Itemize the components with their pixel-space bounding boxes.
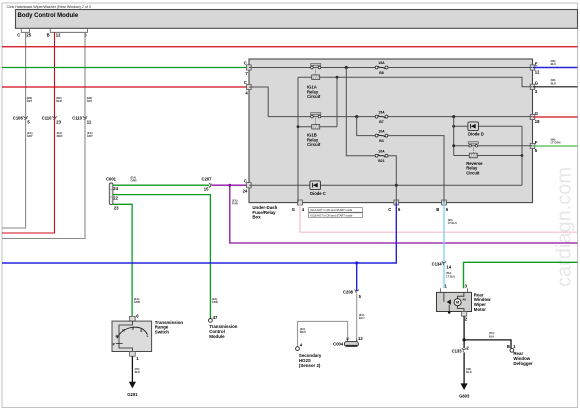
label Rear Window Wiper Motor (474, 292, 491, 311)
relay coil IG1B row (298, 118, 337, 129)
wire purple down and right to border (230, 185, 578, 243)
svg-text:Defogger: Defogger (513, 361, 533, 366)
pin G18 right tab (530, 111, 540, 124)
wire blue drop to C208 (356, 263, 358, 291)
connector C110 pin 23 (42, 116, 62, 125)
node purple junction (228, 184, 231, 187)
connector C208 pin 5 (343, 289, 362, 299)
svg-text:E: E (535, 61, 538, 66)
connector C001 body (106, 177, 117, 205)
svg-text:A6: A6 (462, 298, 466, 302)
node TCM pin 47 (209, 315, 219, 322)
svg-text:47: 47 (213, 315, 218, 320)
wire label (96) BLK (466, 367, 472, 374)
wire label (EA) GRN at TRS (134, 297, 140, 304)
bus red IG1 full width (2, 46, 578, 48)
rear window wiper motor body (437, 292, 472, 313)
relay coil IG1A (312, 69, 320, 79)
svg-text:BLK: BLK (489, 334, 495, 338)
pin C7 left tab (244, 61, 252, 76)
svg-text:WHT: WHT (300, 330, 306, 334)
wire lt-blue B6 down to C134 (443, 203, 445, 289)
wire label (EA) GRY (27, 131, 33, 138)
relay coil Reverse row (454, 148, 522, 158)
svg-text:C: C (388, 207, 391, 212)
svg-text:BLU: BLU (551, 62, 557, 66)
svg-text:Box: Box (252, 215, 261, 220)
wire bus2 to G18 (268, 116, 532, 118)
svg-text:18: 18 (535, 119, 540, 124)
svg-text:C: C (244, 178, 247, 183)
svg-text:B8: B8 (379, 71, 384, 75)
svg-text:Circuit: Circuit (307, 142, 321, 147)
transmission range switch body (112, 321, 152, 351)
pin E12 right tab (530, 61, 540, 74)
relay contact IG1B (311, 113, 321, 118)
bus green to fuse box pin C7 (2, 67, 249, 69)
wire IG1A loop right vertical (336, 77, 338, 127)
diode D (468, 122, 484, 136)
svg-text:M: M (456, 301, 459, 305)
wire label (96) BLU (551, 59, 557, 66)
wire B3 branch (357, 117, 444, 203)
ground G603 (459, 383, 470, 398)
wire black C133 to G603 (463, 352, 465, 383)
node contact row junction (452, 144, 455, 147)
wire G3 black to border (533, 86, 578, 88)
fuse B3 10A (375, 129, 388, 143)
svg-text:GRN: GRN (134, 300, 140, 304)
svg-text:LT BLU: LT BLU (446, 274, 455, 278)
node diode C row junction (395, 184, 398, 187)
wire label (EA) PUR (232, 198, 238, 205)
ground G201 (127, 382, 138, 397)
svg-text:B: B (507, 344, 510, 349)
svg-text:C207: C207 (202, 177, 213, 182)
connector C134 pin 14 (432, 261, 452, 269)
svg-text:G: G (292, 207, 295, 212)
svg-text:BLK: BLK (551, 81, 557, 85)
wire bus1 C7 to E12 (249, 67, 533, 69)
svg-text:B3: B3 (379, 139, 384, 143)
svg-text:GRY: GRY (27, 134, 33, 138)
pin F5 right tab (530, 140, 538, 153)
node blue junction (355, 261, 358, 264)
wire diode D row (454, 125, 522, 127)
node rung junction (336, 76, 339, 79)
pin G3 right tab (530, 81, 538, 94)
wire label (M2) GRY (27, 96, 33, 103)
wire gray C004 pin 8 to HO2S (298, 321, 348, 346)
svg-text:14: 14 (446, 265, 451, 270)
wire black motor pin 2 down (463, 316, 465, 348)
pin C24 left tab (243, 178, 252, 193)
svg-text:B21: B21 (378, 159, 384, 163)
wire BCM B12 red down-left to border (2, 32, 55, 233)
label IG1B Relay Circuit (307, 133, 321, 148)
wire label (96) LT GRN (551, 137, 561, 144)
label Secondary HO2S (Sensor 2) (299, 353, 322, 368)
svg-text:10A: 10A (378, 149, 385, 153)
Body Control Module box (16, 10, 578, 29)
svg-text:Body Control Module: Body Control Module (18, 13, 79, 19)
svg-text:C134: C134 (432, 262, 443, 267)
connector C004 body (333, 336, 363, 346)
node Rear Window Defogger pin B1 (507, 344, 516, 352)
connector C207 pin 15 (202, 177, 213, 192)
wire black TRS pin1 to G201 (131, 356, 133, 382)
wire gray C208 to C004 pin 12 (356, 294, 358, 342)
wire label (96) BLK (551, 78, 557, 85)
pin C6 bottom tab (388, 200, 401, 212)
wire label (M3) GRY (87, 96, 93, 103)
label Reverse Relay Circuit (466, 161, 483, 176)
wire BCM C25 gray down-left to border (2, 32, 26, 228)
wire BCM pin6 gray down-left to border (2, 32, 85, 238)
wire C001 pin 24 green to C207 (113, 185, 209, 191)
svg-text:(Sensor 2): (Sensor 2) (299, 363, 321, 368)
svg-text:GRY: GRY (27, 99, 33, 103)
svg-text:RED: RED (57, 134, 63, 138)
wire IG1A loop left vertical down to pin G4 (297, 77, 299, 202)
wire label (EA) GRY (87, 131, 93, 138)
fuse B21 10A (375, 149, 388, 163)
wire C4 entry to bus2 (249, 87, 268, 117)
wire label (EA) GRN at TCM (212, 297, 218, 304)
wire label (EA) GRN (131, 175, 137, 182)
label Transmission Control Module (209, 324, 238, 339)
svg-text:LT BLU: LT BLU (448, 221, 457, 225)
wire label (TH) LT BLU (446, 271, 455, 278)
svg-text:S: S (140, 329, 142, 333)
BCM pin B12 / pin 6 tab (47, 29, 88, 38)
fuse B8 15A (375, 61, 388, 75)
svg-text:RED: RED (56, 99, 62, 103)
svg-text:24: 24 (243, 189, 248, 194)
wire G18 red to border (533, 116, 578, 118)
svg-text:Module: Module (209, 334, 225, 339)
wire label (M2) RED (56, 96, 62, 103)
svg-text:C133: C133 (452, 349, 463, 354)
svg-text:G603: G603 (459, 393, 470, 398)
svg-text:25: 25 (26, 33, 31, 38)
svg-text:Circuit: Circuit (466, 170, 480, 175)
svg-text:GRY: GRY (87, 99, 93, 103)
wire reverse loop right vertical (521, 126, 523, 185)
node diode D left junction (452, 125, 455, 128)
wire B21 branch (346, 68, 396, 203)
svg-text:B7: B7 (379, 120, 384, 124)
rear wiper motor pin tab 1 and 3 (441, 284, 468, 293)
svg-text:C208: C208 (343, 290, 354, 295)
label Transmission Range Switch (155, 320, 184, 335)
svg-text:C110: C110 (72, 116, 82, 121)
connector C133 pin 2 (452, 345, 470, 353)
pin C4 left tab (244, 80, 252, 95)
Under-Dash Fuse/Relay Box body (249, 59, 533, 220)
wire C001 pin 23 green to TRS pin 6 (113, 204, 132, 316)
svg-text:Circuit: Circuit (307, 94, 321, 99)
svg-text:Diode D: Diode D (468, 131, 484, 136)
legend IG1B HOT in ON and START mode (309, 213, 363, 218)
wire green border to wiper motor pin 3 (464, 262, 578, 288)
svg-text:12: 12 (358, 336, 363, 341)
wire diode C row C24 to reverse loop (249, 184, 522, 186)
svg-text:10A: 10A (378, 129, 385, 133)
wire label (TH) BLK (489, 331, 495, 338)
svg-text:G: G (535, 81, 538, 86)
svg-text:23: 23 (56, 119, 61, 124)
connector C106 pin 5 (13, 116, 31, 125)
svg-text:G201: G201 (127, 392, 138, 397)
svg-text:GRN: GRN (212, 300, 218, 304)
transmission range switch pin 6 tab (130, 314, 140, 322)
svg-text:C004: C004 (333, 341, 344, 346)
svg-text:23: 23 (114, 205, 119, 210)
transmission range switch pin 1 tab (130, 352, 140, 361)
svg-text:IG1A HOT in ON and START mode: IG1A HOT in ON and START mode (310, 208, 352, 212)
svg-text:BLU: BLU (359, 316, 365, 320)
BCM pin C25 tab (17, 29, 31, 38)
svg-text:IG1B HOT in ON and START mode: IG1B HOT in ON and START mode (310, 213, 353, 217)
svg-text:L: L (147, 334, 149, 338)
label IG1A Relay Circuit (307, 85, 321, 100)
svg-text:BLK: BLK (466, 370, 472, 374)
node Secondary HO2S pin 4 (296, 343, 303, 351)
svg-text:C: C (244, 61, 247, 66)
diode C (310, 181, 326, 196)
svg-text:F: F (535, 140, 538, 145)
svg-text:GRN: GRN (131, 179, 137, 183)
svg-text:B: B (436, 207, 439, 212)
svg-text:PUR: PUR (232, 202, 238, 206)
svg-text:C110: C110 (42, 116, 52, 121)
svg-text:15: 15 (204, 186, 209, 191)
svg-text:C001: C001 (106, 177, 117, 182)
svg-text:cardiagn.com: cardiagn.com (554, 167, 576, 287)
svg-text:Switch: Switch (155, 329, 169, 334)
node coil row junction (297, 125, 300, 128)
wire black to rear window defogger (464, 340, 511, 348)
wire C001 pin 22 green to TCM pin 47 (113, 195, 210, 319)
svg-text:11: 11 (87, 119, 92, 124)
pin G4 bottom tab (292, 200, 305, 212)
wire IG1A coil rung to G3 step (298, 77, 533, 87)
wire purple C207 to fuse box pin C24 (212, 184, 249, 186)
wire label (EC) BLU (359, 313, 365, 320)
svg-text:12: 12 (535, 70, 540, 75)
wire label (05) BLK (135, 367, 141, 374)
wire label (EA) RED (57, 131, 63, 138)
wire reverse contact row to F5 (454, 145, 533, 147)
wire label (EC) WHT (300, 327, 306, 334)
label Rear Window Defogger (513, 351, 533, 366)
fuse B7 15A (375, 110, 388, 124)
wire pink G4 down and right to border (300, 203, 578, 233)
svg-text:15A: 15A (378, 110, 385, 114)
svg-text:12: 12 (56, 33, 61, 38)
wire label (96) LT BLU (448, 218, 457, 225)
svg-text:G: G (535, 111, 538, 116)
wire F5 light green to border (533, 145, 578, 147)
node bus2 junction for reverse relay (452, 115, 455, 118)
rear wiper motor pin tab 2 (461, 312, 467, 322)
pin B6 bottom tab (436, 200, 449, 212)
svg-text:C: C (244, 80, 247, 85)
node coil reverse junction (521, 154, 524, 157)
svg-text:C: C (17, 33, 20, 38)
svg-text:BLK: BLK (135, 370, 141, 374)
svg-text:GRY: GRY (87, 134, 93, 138)
svg-text:22: 22 (113, 195, 118, 200)
svg-text:Motor: Motor (474, 307, 486, 312)
relay contact IG1A (311, 63, 321, 68)
svg-text:LT GRN: LT GRN (551, 141, 561, 145)
wire E12 blue to border (533, 67, 578, 69)
node bus1 junction (345, 66, 348, 69)
connector C110 pin 11 (72, 116, 92, 125)
relay contact Reverse (468, 142, 478, 147)
legend IG1A HOT in ON and START mode (309, 208, 363, 213)
svg-text:C106: C106 (13, 116, 24, 121)
svg-text:Civic Hatchback Wiper/Washer (: Civic Hatchback Wiper/Washer (Rear Windo… (7, 5, 91, 9)
bus red to fuse box pin C4 (2, 86, 249, 88)
svg-text:B: B (47, 33, 50, 38)
svg-text:15A: 15A (378, 61, 385, 65)
svg-text:Diode C: Diode C (310, 191, 326, 196)
wire blue border to pin C6 (2, 203, 396, 264)
node bus2 junction for B3 (355, 115, 358, 118)
svg-text:24: 24 (113, 186, 118, 191)
wire reverse relay left vertical (453, 117, 455, 156)
node ground net junction (463, 338, 466, 341)
